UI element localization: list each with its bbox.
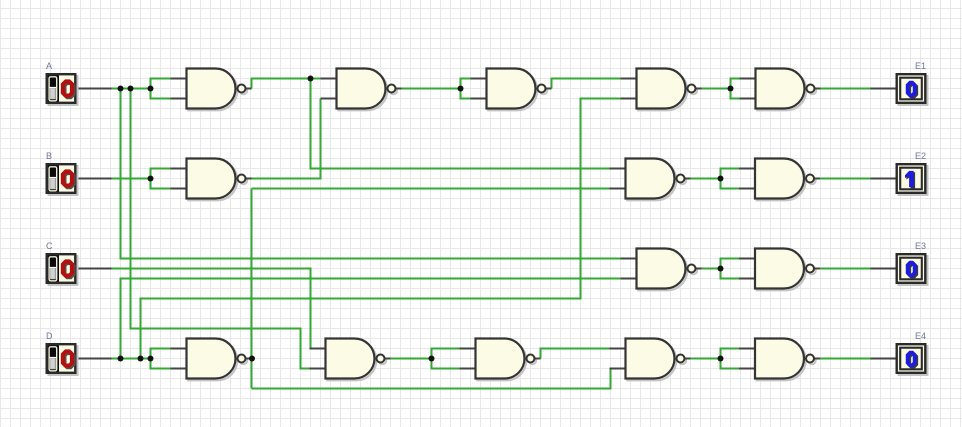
svg-text:A: A xyxy=(46,61,52,71)
svg-text:E4: E4 xyxy=(915,331,926,341)
svg-text:D: D xyxy=(46,331,53,341)
svg-text:E3: E3 xyxy=(915,241,926,251)
svg-text:E1: E1 xyxy=(915,61,926,71)
svg-text:C: C xyxy=(46,241,53,251)
svg-text:E2: E2 xyxy=(915,151,926,161)
svg-text:B: B xyxy=(46,151,52,161)
